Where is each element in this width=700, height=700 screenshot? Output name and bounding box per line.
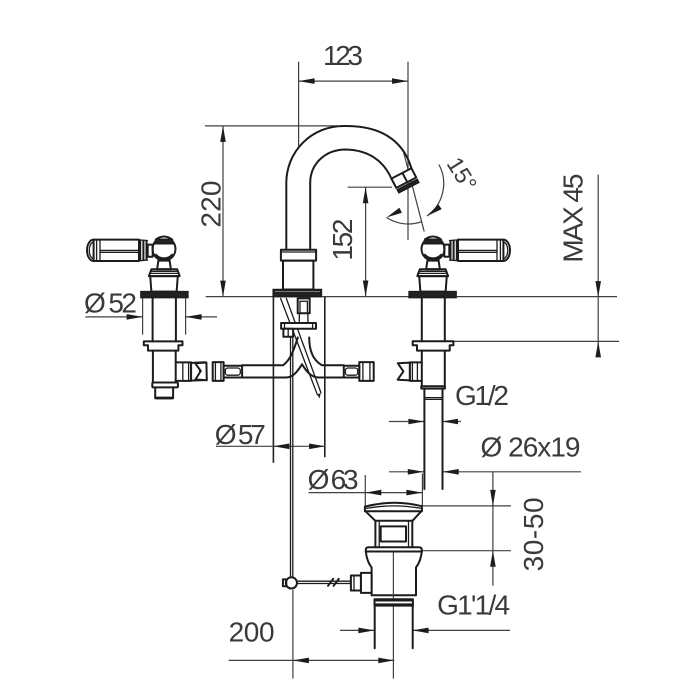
horizontal pop-up rod	[297, 579, 351, 586]
countertop underside line	[453, 340, 619, 342]
body	[421, 351, 423, 363]
svg-text:G1'1/4: G1'1/4	[437, 590, 510, 621]
dimension D57	[215, 297, 325, 463]
neck below ball	[157, 261, 171, 270]
svg-text:Ø 63: Ø 63	[308, 464, 359, 495]
side outlet	[176, 362, 191, 381]
grip neck	[148, 245, 153, 257]
svg-text:G1/2: G1/2	[455, 380, 509, 411]
tail step	[421, 386, 445, 388]
drain collar	[366, 547, 422, 551]
drain tail tube	[375, 606, 413, 649]
dimension D63	[308, 464, 423, 506]
rod ball joint	[283, 577, 297, 588]
spout riser and curve	[286, 126, 411, 250]
lever grip	[87, 240, 94, 261]
left hose sleeve	[224, 366, 243, 378]
dimension 123	[299, 40, 408, 240]
svg-text:152: 152	[327, 219, 358, 261]
dimension 200	[229, 590, 395, 679]
svg-text:220: 220	[195, 181, 226, 228]
bonnet flare	[149, 269, 180, 276]
dimension G1/2	[389, 380, 509, 425]
collar	[144, 341, 183, 350]
right handle assembly above deck (mirrored)	[409, 232, 510, 298]
svg-text:200: 200	[229, 616, 275, 647]
mounting bracket bar	[281, 323, 316, 329]
tailpiece	[155, 387, 173, 398]
dimension 220	[195, 126, 337, 297]
grip end rings	[139, 240, 141, 261]
svg-text:123: 123	[323, 40, 363, 71]
drain thread band G1 1/4	[375, 599, 413, 605]
pop-up lever rod (diagonal)	[281, 298, 321, 398]
left hose nut	[213, 362, 224, 381]
left hose break flag	[195, 363, 207, 381]
dimension D52	[84, 288, 217, 335]
right handle below deck	[398, 298, 454, 489]
dimension G1 1/4	[340, 590, 510, 634]
right hose nut	[359, 362, 373, 381]
mounting flange	[141, 292, 188, 298]
left handle below deck	[144, 298, 206, 399]
bracket nut	[283, 329, 293, 337]
pop-up rod (vertical)	[291, 337, 293, 578]
collar	[413, 341, 454, 350]
bonnet body	[150, 276, 178, 292]
left supply hose	[242, 338, 302, 378]
dimension D26x19	[389, 432, 581, 475]
bottom step	[152, 383, 178, 388]
dimension 15 degrees	[387, 150, 483, 242]
break flag	[398, 363, 410, 381]
side outlet	[410, 362, 422, 381]
svg-text:Ø 57: Ø 57	[215, 419, 266, 450]
right hose sleeve	[344, 366, 360, 378]
pop-up linkage gland	[351, 573, 372, 593]
pop-up drain cap	[365, 503, 422, 512]
body	[152, 351, 154, 383]
spout aerator nozzle	[391, 168, 418, 193]
svg-text:Ø 26x19: Ø 26x19	[481, 432, 581, 463]
dimension 30-50	[422, 472, 549, 586]
spout base collar	[281, 250, 316, 261]
mixer body below deck: cartridge	[298, 298, 310, 323]
right supply hose	[302, 338, 344, 378]
left handle assembly (above deck) + mirrored right handle	[87, 232, 188, 298]
break flag	[191, 362, 206, 380]
deck reference line	[206, 296, 617, 298]
dimension 152	[327, 187, 392, 296]
svg-text:MAX 45: MAX 45	[557, 174, 588, 263]
ball joint	[153, 238, 176, 261]
spout base flange	[273, 290, 321, 297]
drain upper body with overflow window	[375, 521, 412, 548]
spout base body	[283, 261, 313, 290]
svg-text:30-50: 30-50	[518, 497, 549, 571]
drain lower body (bell)	[366, 552, 422, 596]
dimension MAX 45	[557, 174, 601, 358]
drain cap taper	[366, 511, 422, 521]
G1/2 tailpiece	[423, 389, 425, 489]
drain centerline	[392, 552, 394, 679]
svg-text:Ø 52: Ø 52	[84, 288, 137, 319]
